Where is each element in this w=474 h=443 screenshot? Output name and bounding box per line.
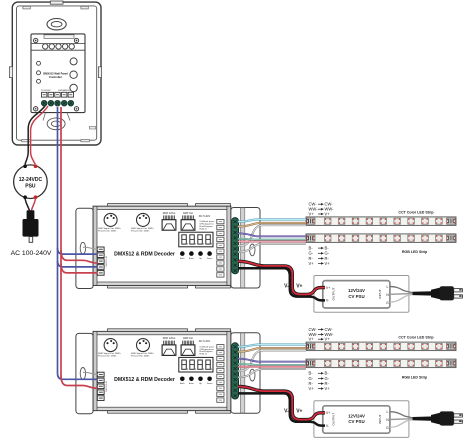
svg-text:PSU: PSU bbox=[25, 183, 36, 189]
svg-text:12-24VDC: 12-24VDC bbox=[19, 177, 43, 183]
svg-text:Controller: Controller bbox=[49, 75, 62, 79]
svg-text:AC 100-240V: AC 100-240V bbox=[11, 250, 52, 257]
svg-text:12-24VDC: 12-24VDC bbox=[41, 90, 51, 92]
svg-text:DMX(A/B/G): DMX(A/B/G) bbox=[58, 89, 70, 92]
